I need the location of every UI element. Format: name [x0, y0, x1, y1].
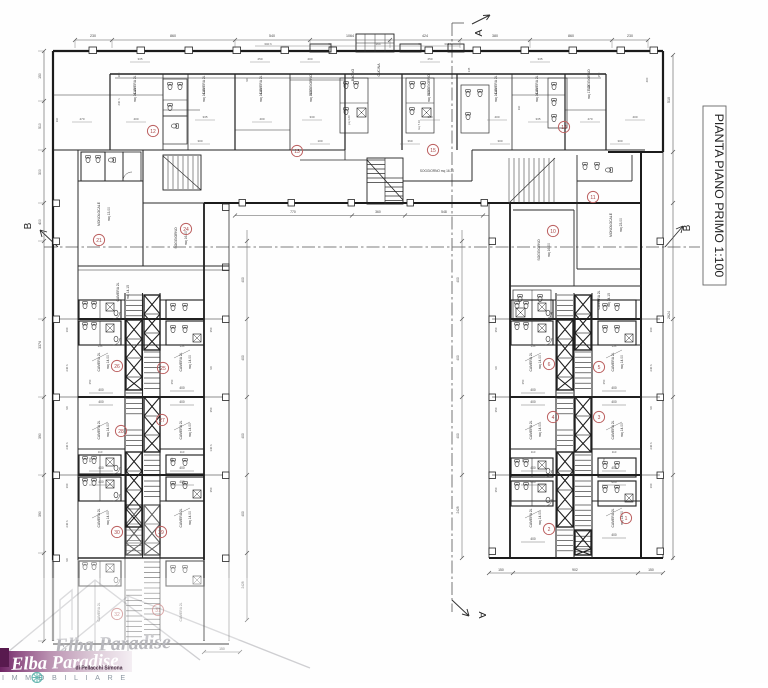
svg-text:CAMERA 2L: CAMERA 2L: [529, 352, 533, 371]
svg-text:5: 5: [598, 365, 601, 371]
apartment block top edge: [110, 73, 606, 75]
left wing inner balcony edge: [228, 203, 230, 560]
svg-text:400: 400: [456, 433, 460, 439]
svg-text:230: 230: [90, 34, 96, 38]
right wing staircase shafts: [557, 295, 573, 316]
svg-text:510: 510: [38, 123, 42, 129]
svg-text:15: 15: [430, 148, 436, 154]
svg-text:2428: 2428: [456, 506, 460, 513]
room number 32: [111, 608, 122, 619]
room number 29: [155, 526, 166, 537]
svg-text:340 h: 340 h: [264, 42, 272, 46]
svg-text:240 h: 240 h: [117, 98, 121, 105]
svg-text:240 h: 240 h: [649, 364, 653, 372]
svg-text:300: 300: [617, 139, 622, 143]
svg-text:540: 540: [269, 34, 275, 38]
svg-text:340 h: 340 h: [444, 42, 452, 46]
svg-text:400: 400: [179, 400, 185, 404]
svg-text:400: 400: [611, 386, 617, 390]
svg-text:100: 100: [317, 139, 322, 143]
svg-text:150: 150: [597, 72, 601, 77]
svg-text:150: 150: [38, 73, 42, 79]
svg-text:CAMERA 2L: CAMERA 2L: [611, 508, 615, 527]
svg-text:335: 335: [98, 344, 103, 348]
left wing bathrooms cluster B: [79, 455, 121, 474]
top-left block bathroom: [163, 79, 187, 116]
svg-text:3: 3: [598, 415, 601, 421]
svg-text:mq 14.00: mq 14.00: [620, 355, 624, 369]
svg-text:400: 400: [611, 400, 617, 404]
svg-text:335: 335: [202, 115, 207, 119]
outer wall top: [53, 50, 663, 52]
svg-text:CUCINA: CUCINA: [377, 63, 381, 77]
svg-text:110: 110: [531, 450, 536, 454]
top bar bathroom 2: [406, 78, 434, 133]
svg-text:350: 350: [521, 457, 525, 462]
svg-text:860: 860: [568, 34, 574, 38]
svg-text:CAMERA 2L: CAMERA 2L: [179, 420, 183, 439]
left wing unit walls: [59, 319, 223, 558]
svg-text:400: 400: [179, 466, 185, 470]
room number 27: [156, 414, 167, 425]
svg-text:400: 400: [179, 386, 185, 390]
svg-text:400: 400: [530, 480, 536, 484]
svg-text:CAMERA 2L: CAMERA 2L: [97, 420, 101, 439]
section line A-A: [451, 23, 453, 612]
room number 1: [620, 512, 631, 523]
svg-text:360: 360: [407, 139, 412, 143]
right wing bottom wall: [489, 557, 663, 559]
svg-text:240 h: 240 h: [65, 442, 69, 450]
left corridor staircase box: [163, 155, 201, 190]
left wing top bathrooms: [81, 152, 105, 181]
outer wall right upper: [662, 51, 664, 152]
svg-text:335: 335: [612, 344, 617, 348]
svg-text:mq 16.00: mq 16.00: [547, 243, 551, 257]
svg-text:11: 11: [590, 195, 595, 201]
svg-text:mq 14.00: mq 14.00: [106, 511, 110, 525]
fade veil: [0, 578, 340, 640]
svg-text:mq 14.15: mq 14.15: [133, 88, 137, 102]
svg-text:90: 90: [649, 406, 653, 410]
svg-text:MONOLOCALE: MONOLOCALE: [97, 201, 101, 226]
svg-text:250: 250: [257, 57, 262, 61]
svg-text:400: 400: [611, 533, 617, 537]
svg-text:110: 110: [517, 105, 521, 110]
svg-text:400: 400: [645, 77, 649, 82]
left wing body wall: [77, 150, 79, 560]
svg-text:PIANTA PIANO PRIMO 1:100: PIANTA PIANO PRIMO 1:100: [712, 114, 726, 278]
right wing top section walls: [510, 155, 641, 345]
svg-text:14: 14: [561, 125, 567, 131]
svg-text:mq 14.00: mq 14.00: [106, 355, 110, 369]
svg-text:160: 160: [649, 483, 653, 488]
right wing outer balcony edge: [662, 152, 664, 558]
svg-text:350: 350: [209, 327, 213, 332]
left wing bottom wall: [53, 643, 229, 645]
svg-text:mq 23.00: mq 23.00: [619, 218, 623, 232]
svg-text:335: 335: [531, 344, 536, 348]
dimension line right wing bottom: [489, 572, 663, 574]
svg-text:140 h: 140 h: [209, 444, 213, 452]
svg-text:26: 26: [114, 364, 120, 370]
svg-text:CAMERA 2L: CAMERA 2L: [97, 352, 101, 371]
svg-text:di Pellacchi Simona: di Pellacchi Simona: [76, 666, 123, 672]
right wing inner balcony edge: [488, 203, 490, 558]
courtyard top wall: [204, 202, 641, 204]
dimension line left wing bottom: [202, 647, 242, 654]
svg-text:SOGGIORNO mq 16.30: SOGGIORNO mq 16.30: [420, 169, 454, 173]
room number 26: [111, 360, 122, 371]
svg-text:A: A: [476, 611, 488, 618]
svg-text:30: 30: [114, 530, 120, 536]
svg-text:110: 110: [180, 450, 185, 454]
svg-text:mq 14.00: mq 14.00: [188, 511, 192, 525]
svg-text:400: 400: [611, 480, 617, 484]
svg-text:90: 90: [65, 406, 69, 410]
svg-text:400: 400: [133, 117, 138, 121]
svg-text:CAMERA 2L: CAMERA 2L: [97, 508, 101, 527]
svg-text:145: 145: [467, 67, 471, 72]
svg-text:860: 860: [170, 34, 176, 38]
svg-text:350: 350: [494, 407, 498, 412]
svg-text:28: 28: [118, 429, 124, 435]
room number 28: [115, 425, 126, 436]
svg-text:21: 21: [96, 238, 102, 244]
svg-text:902: 902: [572, 568, 578, 572]
svg-text:1: 1: [625, 516, 628, 522]
svg-text:200: 200: [307, 57, 312, 61]
top bay windows: [310, 44, 331, 52]
room number 30: [111, 526, 122, 537]
svg-text:335: 335: [535, 117, 540, 121]
svg-text:330: 330: [427, 115, 432, 119]
svg-text:mq 14.00: mq 14.00: [538, 511, 542, 525]
svg-text:10: 10: [550, 229, 556, 235]
svg-text:350: 350: [494, 487, 498, 492]
svg-text:mq 7.10: mq 7.10: [417, 120, 421, 131]
leader marks wings: [92, 350, 622, 518]
svg-text:90: 90: [245, 78, 249, 82]
right wing bathrooms cluster A: [511, 300, 553, 319]
logo teal ornament: [32, 672, 43, 683]
svg-text:548: 548: [441, 210, 447, 214]
svg-text:350: 350: [209, 487, 213, 492]
svg-text:CAMERA 2L: CAMERA 2L: [529, 420, 533, 439]
room number 4: [547, 411, 558, 422]
svg-text:SOGGIORNO: SOGGIORNO: [537, 239, 541, 261]
svg-text:424: 424: [422, 34, 428, 38]
svg-text:360: 360: [375, 210, 381, 214]
svg-text:mq 14.00: mq 14.00: [494, 88, 498, 102]
svg-text:mq 14.00: mq 14.00: [620, 423, 624, 437]
svg-text:400: 400: [530, 466, 536, 470]
svg-text:B: B: [23, 222, 34, 229]
svg-text:CAMERA 2L: CAMERA 2L: [611, 420, 615, 439]
svg-text:24: 24: [183, 227, 189, 233]
svg-text:pq 1.20: pq 1.20: [347, 115, 351, 125]
svg-text:400: 400: [241, 433, 245, 439]
dimension line courtyard top: [235, 215, 489, 217]
svg-text:SOGGIORNO: SOGGIORNO: [174, 227, 178, 249]
svg-text:400: 400: [530, 400, 536, 404]
svg-text:240 h: 240 h: [649, 442, 653, 450]
svg-text:300: 300: [197, 139, 202, 143]
svg-text:400: 400: [611, 466, 617, 470]
left wing bathrooms cluster A right: [166, 321, 204, 345]
svg-text:350: 350: [521, 379, 525, 384]
svg-text:350: 350: [494, 327, 498, 332]
dimension line right outer: [672, 55, 674, 560]
svg-text:90: 90: [494, 366, 498, 370]
svg-text:770: 770: [290, 210, 296, 214]
svg-text:400: 400: [259, 117, 264, 121]
step wall top-right: [608, 151, 663, 153]
svg-text:mq 14.00: mq 14.00: [188, 355, 192, 369]
svg-text:380: 380: [492, 34, 498, 38]
top-right block bathroom: [548, 78, 567, 128]
top bar sub walls: [53, 80, 606, 130]
svg-text:B: B: [682, 224, 693, 231]
svg-text:400: 400: [179, 480, 185, 484]
svg-text:90: 90: [65, 558, 69, 562]
room number 10: [547, 225, 558, 236]
svg-text:150: 150: [648, 568, 654, 572]
outer wall left: [52, 51, 54, 560]
svg-text:13: 13: [294, 149, 300, 155]
room number 3: [593, 411, 604, 422]
svg-text:mq 14.00: mq 14.00: [188, 423, 192, 437]
svg-text:400: 400: [98, 480, 104, 484]
svg-text:110: 110: [98, 450, 103, 454]
svg-text:350: 350: [209, 407, 213, 412]
svg-text:510: 510: [667, 97, 671, 103]
svg-text:335: 335: [180, 344, 185, 348]
svg-text:mq 13.00: mq 13.00: [107, 207, 111, 221]
svg-text:MONOLOCALE: MONOLOCALE: [609, 212, 613, 237]
svg-text:mq 14.00: mq 14.00: [538, 355, 542, 369]
left wing inner wall: [203, 203, 205, 560]
svg-text:6: 6: [548, 362, 551, 368]
section line B-B: [44, 246, 700, 248]
svg-text:160: 160: [65, 327, 69, 332]
svg-text:180: 180: [117, 72, 121, 77]
right wing upper bathrooms: [513, 290, 551, 320]
svg-text:240 h: 240 h: [65, 520, 69, 528]
svg-text:150: 150: [219, 647, 225, 651]
svg-text:400: 400: [494, 115, 499, 119]
balcony columns right wing: [489, 238, 664, 555]
right wing bathrooms cluster B: [511, 458, 553, 477]
room number 11: [587, 191, 598, 202]
dimension line top: [75, 39, 648, 41]
top bar bathroom 3: [461, 85, 489, 133]
svg-text:160: 160: [649, 327, 653, 332]
room number 13: [291, 145, 302, 156]
dimension line courtyard right vertical: [461, 230, 463, 558]
svg-text:12: 12: [150, 129, 156, 135]
left wing staircase shafts: [126, 295, 142, 316]
right wing unit walls: [492, 319, 660, 475]
room number 25: [157, 362, 168, 373]
svg-text:350: 350: [170, 379, 174, 384]
svg-text:240 h: 240 h: [65, 364, 69, 372]
svg-text:mq 14.00: mq 14.00: [202, 88, 206, 102]
dimension line courtyard left vertical: [246, 230, 248, 620]
outer wall right wing: [640, 152, 642, 558]
svg-text:2624: 2624: [667, 311, 671, 319]
svg-text:BAGNO: BAGNO: [351, 69, 355, 82]
svg-text:400: 400: [98, 400, 104, 404]
svg-text:390: 390: [38, 511, 42, 517]
svg-text:400: 400: [530, 388, 536, 392]
balcony columns left wing: [53, 200, 229, 562]
svg-text:150: 150: [498, 568, 504, 572]
svg-text:mq 17.15: mq 17.15: [587, 85, 591, 99]
room number 6: [543, 358, 554, 369]
watermark house outline: [8, 580, 310, 668]
svg-text:mq 14.00: mq 14.00: [106, 423, 110, 437]
svg-text:350: 350: [88, 457, 92, 462]
staircase right corridor: [509, 158, 554, 203]
svg-text:350: 350: [170, 457, 174, 462]
svg-text:CAMERA 2L: CAMERA 2L: [116, 282, 120, 301]
svg-text:110: 110: [55, 117, 59, 122]
top bar bathroom 1: [340, 78, 368, 133]
room number 15: [427, 144, 438, 155]
svg-text:250: 250: [427, 57, 432, 61]
svg-text:1064: 1064: [346, 34, 354, 38]
svg-text:350: 350: [602, 379, 606, 384]
svg-text:390: 390: [38, 433, 42, 439]
svg-text:400: 400: [456, 355, 460, 361]
svg-text:mq 16.00: mq 16.00: [427, 88, 431, 102]
svg-text:4: 4: [552, 415, 555, 421]
svg-text:350: 350: [88, 379, 92, 384]
svg-text:mq 14.00: mq 14.00: [535, 88, 539, 102]
left wing top section walls: [78, 150, 229, 345]
room number 24: [180, 223, 191, 234]
svg-text:300: 300: [38, 169, 42, 175]
title box PIANTA PIANO PRIMO: [703, 106, 726, 285]
svg-text:110: 110: [612, 450, 617, 454]
left wing bathrooms cluster C (faded): [79, 561, 204, 586]
center deep room walls: [300, 159, 367, 161]
svg-text:400: 400: [241, 277, 245, 283]
svg-text:mq 14.00: mq 14.00: [259, 88, 263, 102]
staircase left corridor: [163, 156, 198, 189]
svg-text:3374: 3374: [38, 341, 42, 349]
svg-text:400: 400: [632, 115, 637, 119]
svg-text:230: 230: [627, 34, 633, 38]
staircase center: [367, 158, 403, 204]
svg-text:400: 400: [456, 277, 460, 283]
svg-text:mq 14.00: mq 14.00: [538, 423, 542, 437]
svg-text:2: 2: [548, 527, 551, 533]
svg-text:90: 90: [209, 366, 213, 370]
svg-text:IMMOBILIARE: IMMOBILIARE: [2, 673, 133, 682]
svg-text:mq 14.15: mq 14.15: [126, 285, 130, 299]
svg-text:90: 90: [418, 42, 422, 46]
left wing bathrooms cluster A: [79, 300, 121, 319]
facade pilasters top: [89, 47, 658, 54]
svg-text:470: 470: [79, 117, 84, 121]
svg-text:90: 90: [328, 42, 332, 46]
svg-text:400: 400: [38, 219, 42, 225]
svg-text:CAMERA 2L: CAMERA 2L: [179, 508, 183, 527]
svg-text:mq 16.00: mq 16.00: [309, 88, 313, 102]
room number 2: [543, 523, 554, 534]
room number 5: [593, 361, 604, 372]
svg-text:A: A: [473, 29, 485, 36]
corridor line: [53, 149, 345, 151]
svg-text:300: 300: [497, 139, 502, 143]
svg-text:29: 29: [158, 530, 164, 536]
svg-text:27: 27: [159, 418, 165, 424]
svg-text:164: 164: [375, 42, 380, 46]
svg-text:330: 330: [309, 115, 314, 119]
svg-text:335: 335: [537, 57, 542, 61]
svg-text:CAMERA 2L: CAMERA 2L: [529, 508, 533, 527]
right wing inner wall: [509, 203, 511, 558]
svg-text:350: 350: [602, 457, 606, 462]
svg-text:400: 400: [98, 466, 104, 470]
svg-text:335: 335: [137, 57, 142, 61]
svg-text:400: 400: [241, 355, 245, 361]
svg-text:400: 400: [241, 511, 245, 517]
svg-text:400: 400: [530, 537, 536, 541]
svg-text:160: 160: [65, 483, 69, 488]
room number 31: [152, 604, 163, 615]
room number 12: [147, 125, 158, 136]
room number 14: [558, 121, 569, 132]
room number 21: [93, 234, 104, 245]
svg-text:25: 25: [160, 366, 166, 372]
svg-text:400: 400: [98, 388, 104, 392]
svg-text:470: 470: [587, 117, 592, 121]
dimension line left: [43, 51, 45, 641]
